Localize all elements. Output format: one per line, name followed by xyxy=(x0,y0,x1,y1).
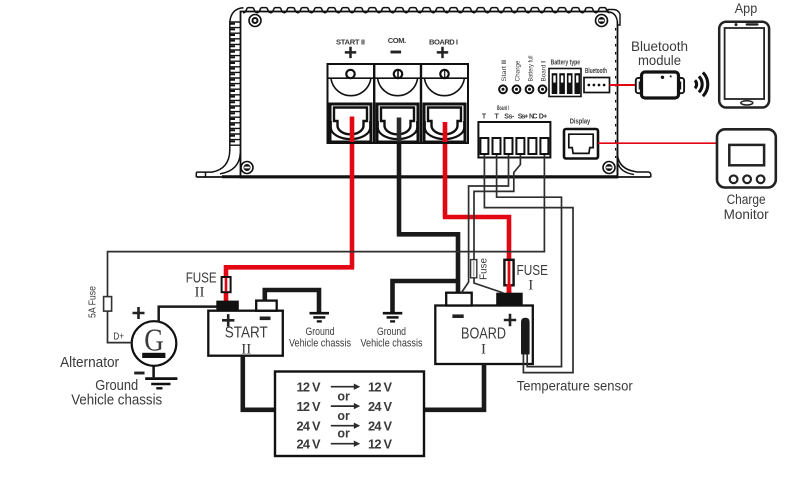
svg-text:Start II: Start II xyxy=(501,60,508,82)
fuse small sense Fuse xyxy=(471,258,490,280)
svg-text:T: T xyxy=(482,114,487,121)
svg-text:12 V: 12 V xyxy=(368,437,392,452)
svg-text:Bluetooth: Bluetooth xyxy=(585,68,607,75)
charge monitor xyxy=(717,129,776,187)
svg-text:NC: NC xyxy=(529,114,538,121)
svg-text:24 V: 24 V xyxy=(297,419,321,434)
power terminal block outline xyxy=(328,64,469,143)
svg-text:Vehicle chassis: Vehicle chassis xyxy=(71,392,162,409)
wire temperature sensor T pin2 inner loop xyxy=(497,155,562,367)
wire Ss- sense to minus terminal xyxy=(462,155,509,293)
plus sign START II xyxy=(345,47,356,58)
wire BOARD I battery to converter table xyxy=(424,364,484,410)
wire D+ to alternator xyxy=(108,155,545,343)
wire red display to monitor xyxy=(598,142,717,144)
svg-text:Ss-: Ss- xyxy=(504,114,515,121)
wire red bluetooth module link xyxy=(610,84,638,86)
battery START II xyxy=(208,301,282,358)
fuse 5A xyxy=(88,286,112,318)
temperature sensor xyxy=(521,318,530,355)
terminal screw holes xyxy=(346,70,354,78)
svg-text:Charge: Charge xyxy=(514,60,521,81)
battery START II plus post xyxy=(216,301,239,311)
svg-text:Monitor: Monitor xyxy=(724,207,770,222)
svg-text:G: G xyxy=(144,321,164,357)
alternator G xyxy=(60,321,176,371)
terminal clamp arcs xyxy=(331,79,464,96)
label START II + xyxy=(336,36,458,46)
wire red stub in BOARD I socket xyxy=(443,122,448,142)
svg-text:12 V: 12 V xyxy=(297,399,321,414)
svg-text:24 V: 24 V xyxy=(368,419,392,434)
terminal socket BOARD I xyxy=(424,104,465,142)
svg-text:5A Fuse: 5A Fuse xyxy=(88,286,99,318)
svg-text:12 V: 12 V xyxy=(297,380,321,395)
svg-text:I: I xyxy=(528,278,533,294)
screw top-left xyxy=(249,15,261,27)
wire temperature sensor T pin1 outer loop xyxy=(484,155,573,373)
wire START II battery to converter table xyxy=(243,356,274,410)
svg-text:24 V: 24 V xyxy=(368,399,392,414)
svg-text:T: T xyxy=(494,114,499,121)
svg-text:BOARD: BOARD xyxy=(461,325,506,342)
LED indicator Start II xyxy=(499,60,508,93)
voltage conversion table xyxy=(275,372,424,457)
svg-text:Ground: Ground xyxy=(377,326,406,338)
screw top-right xyxy=(596,15,608,27)
svg-text:I: I xyxy=(481,342,486,358)
charger unit housing face xyxy=(241,12,618,178)
plus sign BOARD I xyxy=(437,47,448,58)
wire red START II+ from charger xyxy=(226,117,354,303)
svg-text:Battery full: Battery full xyxy=(527,55,534,81)
svg-text:BOARD I: BOARD I xyxy=(429,38,458,47)
svg-text:Vehicle chassis: Vehicle chassis xyxy=(289,338,351,350)
svg-text:Ground: Ground xyxy=(306,326,335,338)
svg-text:D+: D+ xyxy=(539,114,548,121)
terminal socket START II xyxy=(330,104,371,142)
wireless signal icon xyxy=(695,72,708,96)
LED indicator Board I xyxy=(539,61,548,93)
svg-text:Display: Display xyxy=(570,117,591,126)
svg-text:24 V: 24 V xyxy=(297,437,321,452)
charger left heatsink fins xyxy=(230,8,244,151)
charger bottom left mounting foot xyxy=(196,150,240,177)
fuse FUSE I xyxy=(504,260,548,294)
svg-text:12 V: 12 V xyxy=(368,380,392,395)
fuse FUSE II xyxy=(186,270,231,300)
battery START II minus post xyxy=(256,301,277,311)
svg-text:Board I: Board I xyxy=(540,61,547,82)
wire red BOARD I+ from charger xyxy=(443,122,509,294)
alternator plus sign xyxy=(133,307,145,319)
screw bottom-right xyxy=(603,162,615,174)
terminal socket COM xyxy=(377,104,418,142)
svg-text:App: App xyxy=(735,0,758,16)
ground COM middle xyxy=(383,313,403,321)
charger bottom edge xyxy=(197,176,651,178)
svg-text:or: or xyxy=(337,389,350,403)
svg-text:Battery type: Battery type xyxy=(551,58,581,67)
minus sign COM xyxy=(391,51,402,54)
svg-text:II: II xyxy=(195,285,205,301)
battery BOARD I minus post xyxy=(446,293,472,306)
svg-text:COM.: COM. xyxy=(388,36,407,45)
svg-text:Charge: Charge xyxy=(727,192,766,207)
smartphone xyxy=(719,22,769,108)
Board I pin terminal block xyxy=(478,106,550,158)
svg-text:module: module xyxy=(638,52,681,68)
svg-text:Ss+: Ss+ xyxy=(518,114,529,121)
LED indicator Charge xyxy=(513,60,522,93)
DIP switch Battery type xyxy=(549,58,581,97)
wire black COM ground xyxy=(393,118,459,314)
svg-text:or: or xyxy=(337,427,350,441)
svg-text:D+: D+ xyxy=(113,331,124,343)
charger top right corner tab xyxy=(608,10,620,26)
Bluetooth connector xyxy=(584,68,610,93)
svg-text:or: or xyxy=(337,409,350,423)
screw bottom-left xyxy=(241,162,253,174)
wire alternator plus to START II battery xyxy=(159,307,217,322)
charger top ribbed edge xyxy=(243,8,610,13)
Display connector xyxy=(564,117,598,159)
wire red stub in START II socket xyxy=(350,117,355,143)
LED indicator Battery full xyxy=(526,55,535,93)
svg-text:START II: START II xyxy=(336,38,365,47)
battery BOARD I plus post xyxy=(496,293,523,306)
svg-text:Alternator: Alternator xyxy=(60,354,119,371)
wire Ss+ sense through fuse to plus terminal xyxy=(474,155,520,293)
charger bottom right mounting foot xyxy=(617,150,650,177)
svg-text:START: START xyxy=(225,325,268,342)
svg-text:Vehicle chassis: Vehicle chassis xyxy=(361,338,423,350)
wire START II minus to ground xyxy=(265,290,319,313)
battery BOARD I xyxy=(435,293,533,364)
wire black stub in COM socket xyxy=(397,118,402,143)
alternator minus sign xyxy=(134,372,144,375)
bluetooth module xyxy=(636,72,684,98)
svg-text:II: II xyxy=(241,341,251,357)
ground START II xyxy=(310,313,330,321)
svg-text:Board I: Board I xyxy=(497,106,509,112)
ground alternator xyxy=(145,366,177,389)
svg-text:Fuse: Fuse xyxy=(479,258,490,280)
svg-text:Temperature sensor: Temperature sensor xyxy=(517,377,633,393)
